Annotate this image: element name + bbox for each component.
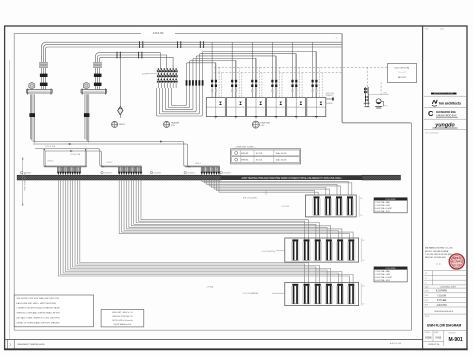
- coil group CG3 element 2: [303, 284, 310, 304]
- tank T3 control wiring (dashed): [259, 67, 262, 97]
- control signal bus (dashed) to DDC panel: [214, 67, 387, 72]
- tank T5 body: [287, 98, 306, 119]
- svg-text:x1: x1: [336, 38, 338, 40]
- svg-text:BASEMENT PARKING ADD: BASEMENT PARKING ADD: [18, 343, 46, 346]
- coil spec table 2: [374, 267, 407, 282]
- svg-text:4,5: 4,5: [360, 198, 363, 200]
- tank T3 return pipe with valves: [255, 58, 257, 97]
- coil spec table 1: [374, 198, 407, 213]
- coil group CG1 element 2: [324, 196, 331, 215]
- signature rows: [424, 290, 467, 307]
- tank T6 supply pipe with valves: [312, 42, 314, 97]
- trench label band with white text: [221, 175, 362, 180]
- svg-text:(M) HANKOOK ENG CO.,LTD: (M) HANKOOK ENG CO.,LTD: [425, 247, 453, 250]
- coil group CG2 enclosure: [285, 238, 359, 262]
- svg-text:4,5: 4,5: [362, 286, 365, 288]
- svg-text:K.S.PARK: K.S.PARK: [436, 290, 448, 293]
- svg-text:DRW: DRW: [425, 290, 429, 292]
- pipe bundle B2 (3 lines to valve manifold): [96, 53, 174, 91]
- general notes box: [14, 295, 93, 327]
- tank T1 supply pipe with valves: [211, 42, 213, 97]
- svg-text:DETAIL OF TRENCH AND SUPPORT S: DETAIL OF TRENCH AND SUPPORT SPACING.: [16, 321, 60, 324]
- svg-text:TEL 02-000-0000: TEL 02-000-0000: [425, 132, 438, 134]
- coil group CG2 element 4: [325, 239, 332, 260]
- architect black banner: [424, 92, 467, 96]
- svg-text:C.H.S 25A - 6EA: C.H.S 25A - 6EA: [375, 270, 390, 273]
- svg-text:E.H.S 25A - 0.5t/3P: E.H.S 25A - 0.5t/3P: [375, 207, 392, 210]
- drop pipes into header H0: [44, 149, 87, 167]
- yungdo logo: [424, 123, 467, 135]
- svg-text:A-020 (L-00): A-020 (L-00): [390, 342, 402, 345]
- svg-text:E.H COIL(SUPL): E.H COIL(SUPL): [243, 197, 258, 199]
- svg-text:C: C: [428, 109, 434, 118]
- footer revision strip: [5, 340, 423, 349]
- assembly B lower riser bundle: [85, 94, 89, 142]
- riser assembly B upper pipes: [94, 62, 102, 68]
- svg-text:EWH-R1: EWH-R1: [241, 153, 248, 155]
- drawing title row: [424, 316, 467, 331]
- svg-text:MCC-R1: MCC-R1: [398, 77, 407, 79]
- tank T4 return pipe with valves: [275, 56, 277, 98]
- valve group B3 (dark, lower riser): [84, 113, 90, 117]
- svg-text:C.H.R 25A - G/W: C.H.R 25A - G/W: [375, 273, 390, 276]
- svg-text:C.H COIL(HTG): C.H COIL(HTG): [262, 251, 276, 253]
- svg-text:4,5: 4,5: [362, 240, 365, 242]
- client address block: [425, 247, 453, 266]
- branch pipe group from header H1 to coil group 2: [119, 180, 353, 240]
- pipe couplings on bundle B1: [140, 41, 204, 48]
- coil group CG3 element 6: [348, 284, 355, 304]
- coil group CG2 element 1: [292, 239, 299, 260]
- svg-text:HDR-2: HDR-2: [195, 163, 201, 165]
- pump P-A hexagon symbol: [29, 82, 35, 89]
- tank T6 body: [307, 98, 326, 119]
- pressure reducing valve station PRV-1: [364, 87, 389, 107]
- svg-text:2023.07.20: 2023.07.20: [428, 344, 440, 346]
- svg-text:CVGXVT: CVGXVT: [223, 173, 232, 175]
- svg-text:E.H.R 25A - 6CH: E.H.R 25A - 6CH: [375, 210, 390, 213]
- svg-text:S.H.LEE: S.H.LEE: [437, 299, 447, 302]
- tank T6 control wiring (dashed): [320, 67, 323, 97]
- svg-text:PRJ: PRJ: [425, 29, 428, 31]
- svg-text:HDR-1: HDR-1: [107, 162, 113, 164]
- valve group B2 (dark): [94, 83, 102, 86]
- svg-text:E.H.R 25A - 6CH: E.H.R 25A - 6CH: [375, 279, 390, 282]
- tank T2 control wiring (dashed): [239, 67, 242, 97]
- svg-text:50A x 55-OR: 50A x 55-OR: [276, 158, 287, 161]
- coil group CG2 element 5: [337, 239, 344, 260]
- tank T4 control wiring (dashed): [279, 67, 282, 97]
- svg-text:CONNECTION WITH 15Kg/cm2 RATIN: CONNECTION WITH 15Kg/cm2 RATING VALVE: [16, 307, 60, 310]
- electric water heater tanks row: [0, 0, 1, 1]
- svg-text:Y.S.KIM: Y.S.KIM: [437, 294, 446, 297]
- inner drawing frame: [14, 34, 411, 331]
- pump P-B hexagon symbol: [83, 82, 89, 89]
- svg-text:(SPARE): (SPARE): [326, 102, 333, 105]
- svg-text:CH 35A: CH 35A: [207, 285, 214, 288]
- scale and drawing number cells: [424, 330, 463, 346]
- svg-text:hm architects: hm architects: [439, 101, 461, 105]
- instrument drop (dashed): [367, 67, 381, 96]
- equipment table title: [234, 147, 257, 149]
- svg-text:2023-M901.DWG: 2023-M901.DWG: [440, 287, 456, 289]
- coil group CG3 element 1: [292, 284, 299, 304]
- riser assembly A upper pipes: [40, 62, 48, 68]
- tank T4 body: [267, 98, 286, 119]
- svg-text:NO.1123: NO.1123: [452, 264, 462, 267]
- svg-text:⎓— —⎓: ⎓— —⎓: [398, 72, 406, 74]
- flow arrows on runs: [69, 140, 163, 152]
- svg-text:H/NS: H/NS: [436, 338, 442, 340]
- branch pipe group from header H0 to coil group 3: [58, 180, 353, 284]
- svg-text:○ ○: ○ ○: [436, 262, 441, 266]
- permit number row: [424, 311, 467, 314]
- svg-text:E.H.S 25A - 0.5t/3P: E.H.S 25A - 0.5t/3P: [375, 276, 392, 279]
- coil group CG3 element 3: [314, 284, 321, 304]
- coil group CG2 element 3: [314, 239, 321, 260]
- svg-text:CVGXVT: CVGXVT: [104, 173, 113, 175]
- coil group CG2 element 2: [303, 239, 310, 260]
- tank T2 body: [226, 98, 245, 119]
- coil group CG1 element 1: [313, 196, 320, 215]
- svg-text:C.H COIL: C.H COIL: [281, 206, 289, 208]
- svg-text:000-0000-000-00-0: 000-0000-000-00-0: [434, 311, 454, 313]
- svg-text:30 COIL: 30 COIL: [256, 153, 263, 155]
- svg-text:HTG-S 50A: HTG-S 50A: [45, 145, 56, 148]
- coil group CG1 enclosure: [306, 195, 357, 217]
- valve group B1 (dark): [94, 74, 102, 77]
- distribution header H0 with branch valves: [44, 166, 87, 175]
- pipe bundle B1 (3 lines, main supply header): [42, 42, 343, 90]
- svg-text:• DIST HEATING HWS AND HWR PIP: • DIST HEATING HWS AND HWR PIPE WORK IN …: [241, 177, 342, 180]
- distribution header H1 with branch valves: [101, 166, 142, 175]
- coil group dimension marks: [359, 196, 364, 306]
- tank T2 return pipe with valves: [235, 61, 237, 98]
- nested U-turn pipe runs (manifold to return risers): [156, 51, 316, 116]
- svg-text:N-0.1: N-0.1: [440, 29, 444, 31]
- svg-text:1,5: 1,5: [362, 260, 365, 262]
- svg-text:NOTE: HDR x 50mm t/g: NOTE: HDR x 50mm t/g: [112, 319, 132, 322]
- run labels: [45, 145, 81, 156]
- revision table rows: [424, 271, 467, 285]
- title block left boundary: [422, 26, 424, 349]
- left dimension line with rotated label: [22, 157, 27, 206]
- branch pipe to expansion fitting: [119, 57, 121, 106]
- detail callout D2: [164, 121, 180, 127]
- svg-text:SEOUL 135-080 KOREA: SEOUL 135-080 KOREA: [425, 250, 449, 253]
- branch pipe group from header H2 to coil group 1: [202, 180, 352, 195]
- coil group labels with leaders: [207, 191, 290, 296]
- svg-text:FP-1: FP-1: [384, 105, 388, 107]
- svg-text:1,5: 1,5: [360, 215, 363, 217]
- svg-text:EACH EWH UNIT HWS + HWR 25A PI: EACH EWH UNIT HWS + HWR 25A PIPING: [16, 302, 56, 305]
- architect logo signature: [424, 100, 467, 108]
- svg-text:30 COIL: 30 COIL: [256, 159, 263, 161]
- svg-text:TRENCH COVER AND SLEEVE SHALL: TRENCH COVER AND SLEEVE SHALL BE HOT: [16, 312, 61, 315]
- svg-text:COIL SPEC: COIL SPEC: [385, 199, 396, 201]
- engineering company logo C: [424, 109, 467, 119]
- tank T3 body: [247, 98, 266, 119]
- left margin line: [9, 60, 11, 340]
- spare branch stub at tank T6: [325, 93, 334, 105]
- valve bands on return risers (dark): [186, 80, 204, 85]
- coil group CG1 element 3: [335, 196, 342, 215]
- svg-text:C.H.S 25A - 6EA: C.H.S 25A - 6EA: [375, 201, 390, 204]
- svg-text:EWH-R1: EWH-R1: [241, 159, 248, 161]
- tank T1 return pipe with valves: [215, 63, 217, 98]
- tank T1 control wiring (dashed): [219, 67, 222, 97]
- approval stamp (red seal): [449, 254, 464, 269]
- coil group CG3 element 5: [337, 284, 344, 304]
- svg-text:CHUNG WOO E+C: CHUNG WOO E+C: [436, 114, 457, 117]
- valve group A1 (dark): [40, 74, 48, 77]
- svg-text:C.H.R 25A - G/W: C.H.R 25A - G/W: [375, 204, 390, 207]
- svg-text:CVGXVT: CVGXVT: [187, 173, 196, 175]
- trench tags: [21, 171, 232, 174]
- svg-text:C.H COIL(WARM): C.H COIL(WARM): [243, 292, 259, 295]
- svg-text:HDR-0: HDR-0: [48, 161, 54, 163]
- pipe couplings on bundle B2: [117, 52, 142, 59]
- svg-text:DWG NO: DWG NO: [449, 332, 457, 334]
- coil group CG1 element 4: [346, 196, 353, 215]
- svg-text:NONE: NONE: [425, 338, 432, 340]
- cad file row: [424, 286, 467, 289]
- svg-text:COIL SPEC: COIL SPEC: [385, 268, 396, 270]
- svg-text:KPEA: KPEA: [453, 256, 462, 260]
- DDC control panel box: [387, 64, 416, 83]
- expansion fitting (diamond): [118, 107, 123, 119]
- tank T2 supply pipe with valves: [231, 42, 233, 97]
- tank T5 return pipe with valves: [295, 54, 297, 98]
- valve manifold cluster (3 rows x 7 valves): [157, 68, 178, 88]
- svg-text:EWH FLOW DIAGRAM: EWH FLOW DIAGRAM: [427, 324, 461, 328]
- tank T4 supply pipe with valves: [271, 42, 273, 97]
- svg-text:50A x 55-OR: 50A x 55-OR: [276, 152, 287, 155]
- svg-text:EQUIP BASE H=100: EQUIP BASE H=100: [114, 323, 132, 326]
- svg-text:AHXG: AHXG: [142, 72, 148, 75]
- svg-text:HTG-R 50A: HTG-R 50A: [70, 153, 81, 156]
- equipment schedule table: [231, 149, 301, 164]
- svg-text:1,5: 1,5: [362, 304, 365, 306]
- tank T1 body: [206, 98, 225, 119]
- tank T6 return pipe with valves: [315, 51, 317, 97]
- assembly A lower riser bundle: [30, 94, 34, 142]
- title block top project row: [425, 29, 444, 31]
- valve group A3 (dark, lower riser): [29, 113, 35, 117]
- detail callout D3: [252, 121, 271, 128]
- manifold feed line with tag: [142, 72, 157, 75]
- svg-text:M-901: M-901: [449, 337, 463, 343]
- tank T3 supply pipe with valves: [251, 42, 253, 97]
- svg-text:SPARE(C): SPARE(C): [326, 94, 334, 97]
- detail callout D1: [112, 121, 127, 127]
- svg-text:HWS-1: HWS-1: [119, 124, 126, 126]
- zone partition outline: [342, 34, 411, 331]
- pump header P-A: [27, 89, 53, 95]
- coil group CG3 enclosure: [285, 282, 359, 305]
- pipe trench hatched band: [17, 175, 400, 180]
- svg-text:DIP GALV. STEEL, REFER TO CIVI: DIP GALV. STEEL, REFER TO CIVIL DWG FOR: [16, 316, 60, 319]
- valve group A2 (dark): [40, 83, 48, 86]
- svg-text:DDC CNTL PNL: DDC CNTL PNL: [394, 68, 410, 70]
- svg-text:J.W.CHO: J.W.CHO: [436, 304, 446, 307]
- header labels: [48, 161, 201, 166]
- svg-text:REG NO 11-0504-000: REG NO 11-0504-000: [425, 257, 446, 259]
- frame top label 1463.89: [141, 31, 175, 36]
- svg-text:HEADER: HEADER: [171, 121, 180, 124]
- svg-text:CVGXVT: CVGXVT: [154, 173, 163, 175]
- svg-text:EWH CAP : 30kW x 1.5t: EWH CAP : 30kW x 1.5t: [112, 311, 133, 314]
- tank T5 control wiring (dashed): [300, 67, 303, 97]
- supplementary note box: [101, 310, 144, 327]
- feed pump unit FP-1: [375, 99, 387, 108]
- partition corner note: [336, 38, 338, 40]
- svg-text:1463.89: 1463.89: [153, 31, 164, 35]
- coil group CG3 element 4: [325, 284, 332, 304]
- distribution header H2 with branch valves: [185, 166, 220, 175]
- coil group CG2 element 6: [348, 239, 355, 260]
- svg-text:← EWH UNIT SCHED →: ← EWH UNIT SCHED →: [234, 147, 257, 149]
- tank T5 supply pipe with valves: [291, 42, 293, 97]
- svg-text:PIPE TRENCH 1,200: PIPE TRENCH 1,200: [25, 173, 27, 191]
- svg-text:HWS 60C PIPE INS 25t: HWS 60C PIPE INS 25t: [112, 315, 133, 318]
- pump header P-B: [81, 89, 107, 95]
- heating supply run lines: [33, 142, 190, 168]
- svg-text:T 02.555.1234 F 02.555.4321: T 02.555.1234 F 02.555.4321: [425, 254, 453, 256]
- svg-text:MECH P.E.: MECH P.E.: [450, 260, 463, 264]
- svg-text:THE NOTED PIPE SIZE SHALL BE U: THE NOTED PIPE SIZE SHALL BE USED FOR: [16, 297, 59, 300]
